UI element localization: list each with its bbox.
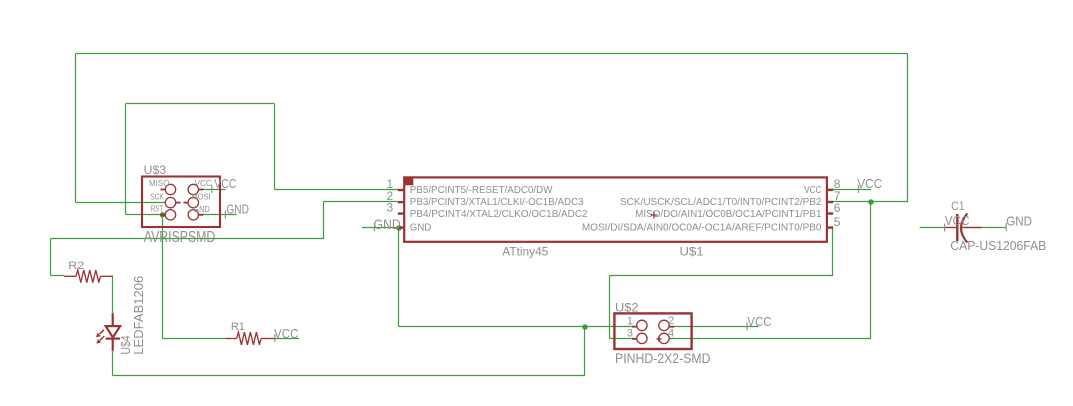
supply VCC at R1 — [274, 334, 276, 342]
svg-text:GND: GND — [226, 202, 249, 216]
supply GND at ATtiny — [374, 223, 376, 231]
svg-text:GND: GND — [374, 216, 401, 232]
svg-text:U$3: U$3 — [144, 163, 167, 177]
svg-text:LEDFAB1206: LEDFAB1206 — [131, 276, 146, 355]
wire net SCK top horizontal — [76, 53, 908, 55]
svg-text:3: 3 — [387, 201, 394, 215]
wire ATtiny pin2 — [324, 201, 399, 203]
supply VCC at U$2 — [746, 322, 748, 330]
wire pin2 vertical — [323, 202, 325, 239]
header U$2 PINHD-2X2-SMD — [614, 313, 691, 349]
svg-text:PB3/PCINT3/XTAL1/CLKI/-OC1B/AD: PB3/PCINT3/XTAL1/CLKI/-OC1B/ADC3 — [410, 197, 584, 208]
svg-text:1: 1 — [627, 315, 633, 327]
wire GND down — [398, 228, 400, 327]
resistor R1 — [226, 332, 275, 345]
svg-text:AVRISPSMD: AVRISPSMD — [144, 229, 216, 246]
svg-text:U$2: U$2 — [615, 300, 639, 314]
wire RST down to R1 — [162, 215, 164, 339]
svg-text:VCC: VCC — [747, 315, 771, 329]
svg-text:4: 4 — [668, 328, 674, 340]
red cross on PB1 row — [650, 212, 657, 219]
connector U$3 AVRISPSMD — [142, 177, 220, 228]
junction header pin1 row — [582, 324, 588, 330]
wire SCK into U$3 — [76, 202, 166, 204]
junction RST — [160, 212, 165, 217]
supply VCC at C1 — [944, 224, 946, 232]
svg-text:CAP-US1206FAB: CAP-US1206FAB — [950, 238, 1046, 253]
LED U$4 — [100, 313, 121, 350]
svg-text:GND: GND — [1006, 215, 1032, 229]
wire header pin4 row — [669, 338, 871, 340]
wire R1 left — [163, 338, 226, 340]
svg-text:GND: GND — [193, 205, 210, 214]
wire U$3 GND pin — [198, 214, 237, 216]
supply VCC at U$3 — [211, 185, 213, 193]
svg-text:RST: RST — [151, 205, 164, 214]
svg-text:GND: GND — [410, 223, 432, 234]
wire pin2 long horizontal — [51, 238, 325, 240]
svg-text:VCC: VCC — [804, 185, 821, 196]
wire LED bottom horizontal — [113, 375, 586, 377]
svg-text:MISO: MISO — [149, 179, 170, 188]
svg-text:VCC: VCC — [945, 214, 970, 228]
svg-text:3: 3 — [627, 328, 633, 340]
svg-text:SCK/USCK/SCL/ADC1/T0/INT0/PCIN: SCK/USCK/SCL/ADC1/T0/INT0/PCINT2/PB2 — [620, 197, 822, 208]
svg-text:MOSI: MOSI — [192, 193, 211, 202]
wire GND to header pin1 — [399, 326, 637, 328]
svg-text:6: 6 — [834, 201, 841, 215]
svg-text:ATtiny45: ATtiny45 — [502, 244, 548, 258]
wire to ATtiny pin1 — [275, 189, 399, 191]
svg-text:2: 2 — [668, 315, 674, 327]
resistor R2 — [64, 270, 113, 283]
wire LED cathode down — [112, 351, 114, 376]
wire bottom up to header row — [584, 327, 586, 376]
svg-text:SCK: SCK — [150, 193, 164, 202]
svg-text:PB5/PCINT5/-RESET/ADC0/DW: PB5/PCINT5/-RESET/ADC0/DW — [410, 185, 553, 196]
wire pin5 horizontal — [610, 275, 834, 277]
svg-text:VCC: VCC — [274, 327, 299, 341]
svg-text:PINHD-2X2-SMD: PINHD-2X2-SMD — [615, 350, 711, 366]
svg-text:MISO/DO/AIN1/OC0B/OC1A/PCINT1/: MISO/DO/AIN1/OC0B/OC1A/PCINT1/PB1 — [635, 209, 822, 220]
wire net RESET right vertical — [274, 104, 276, 190]
capacitor C1 — [944, 214, 982, 243]
junction pin7 — [868, 199, 874, 205]
wire ATtiny pin8 to VCC — [833, 189, 872, 191]
wire R1 right to VCC — [275, 338, 299, 340]
supply GND at U$3 — [224, 211, 226, 219]
wire R2 to LED — [112, 276, 114, 314]
wire to header pin3 — [610, 338, 637, 340]
wire C1 VCC side — [920, 227, 944, 229]
wire C1 GND side — [982, 227, 1006, 229]
svg-text:U$1: U$1 — [680, 244, 704, 258]
wire net SCK right vertical — [907, 54, 909, 202]
svg-text:VCC: VCC — [214, 177, 237, 191]
wire ATtiny pin7 — [833, 201, 909, 203]
wire junction down to header pin4 — [870, 202, 872, 339]
svg-text:R2: R2 — [68, 260, 84, 272]
wire GND label stub at ATtiny — [362, 227, 399, 229]
svg-text:VCC: VCC — [857, 177, 882, 191]
svg-text:C1: C1 — [951, 201, 965, 213]
wire down to R2 — [50, 239, 52, 276]
wire R2 left — [51, 275, 64, 277]
wire pin5 vertical to header — [609, 276, 611, 339]
svg-text:PB4/PCINT4/XTAL2/CLKO/OC1B/ADC: PB4/PCINT4/XTAL2/CLKO/OC1B/ADC2 — [410, 209, 588, 220]
svg-text:MOSI/DI/SDA/AIN0/OC0A/-OC1A/AR: MOSI/DI/SDA/AIN0/OC0A/-OC1A/AREF/PCINT0/… — [582, 223, 822, 234]
wire RST into U$3 — [126, 214, 166, 216]
wire net RESET left vertical — [125, 104, 127, 215]
svg-text:5: 5 — [834, 215, 841, 229]
junction ATtiny GND — [396, 225, 402, 231]
wire net SCK left vertical — [75, 54, 77, 203]
supply GND at C1 — [1005, 223, 1007, 231]
svg-text:VCC: VCC — [195, 179, 212, 188]
LED arrow heads — [96, 333, 101, 344]
wire U$3 VCC pin — [200, 189, 226, 191]
wire net RESET top horizontal — [126, 103, 275, 105]
wire ATtiny pin5 down — [832, 228, 834, 276]
supply VCC at pin8 — [858, 185, 860, 193]
wire header pin2 to VCC — [669, 326, 758, 328]
svg-text:R1: R1 — [231, 321, 245, 333]
IC U$1 ATtiny45 body — [398, 177, 833, 242]
